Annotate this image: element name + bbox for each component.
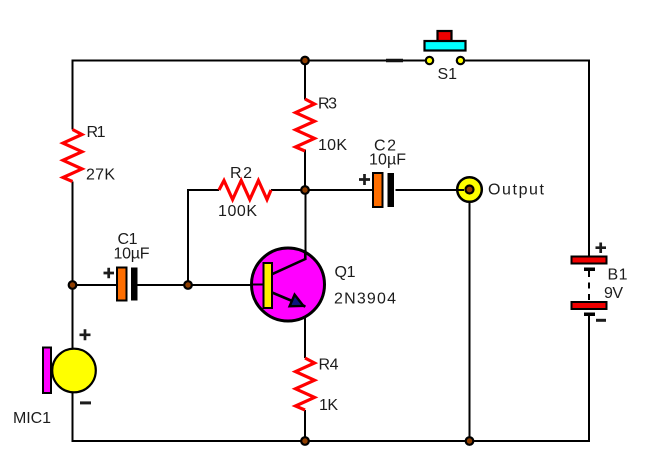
- wire left rail: [72, 60, 74, 443]
- microphone MIC1: [13, 329, 96, 427]
- junction R2/R3/collector: [301, 186, 309, 194]
- switch S1: [425, 31, 466, 83]
- wire overlap segment on top rail: [386, 59, 403, 62]
- wire top rail right of S1: [460, 60, 590, 62]
- wire top rail left of S1: [72, 60, 431, 62]
- svg-text:2N3904: 2N3904: [334, 291, 396, 308]
- svg-text:B1: B1: [608, 267, 628, 284]
- svg-text:R1: R1: [87, 124, 106, 141]
- wire R3 branch vertical: [304, 60, 306, 191]
- resistor R2: [219, 181, 271, 200]
- capacitor C2: [359, 138, 406, 208]
- wire vertical x188 R2-to-base: [187, 189, 189, 285]
- wire C2 to output: [396, 189, 458, 191]
- svg-text:10µF: 10µF: [369, 152, 406, 169]
- svg-text:R3: R3: [318, 96, 337, 113]
- junction top center: [301, 57, 309, 65]
- junction C1 / R2 / base: [184, 281, 192, 289]
- wire bottom rail: [72, 440, 591, 442]
- resistor R4: [296, 358, 315, 410]
- transistor Q1: [252, 248, 325, 321]
- svg-text:10K: 10K: [318, 137, 347, 154]
- junction bottom center: [301, 437, 309, 445]
- svg-text:Q1: Q1: [335, 264, 356, 281]
- svg-text:S1: S1: [438, 66, 458, 83]
- resistor R1: [63, 130, 82, 182]
- wire output vertical: [469, 200, 471, 441]
- junction bottom output: [466, 437, 474, 445]
- resistor R3: [296, 99, 315, 151]
- svg-text:Output: Output: [488, 182, 545, 199]
- wire R2 stubs: [188, 189, 305, 191]
- wire row y190 to C2: [305, 189, 373, 191]
- capacitor C1: [104, 231, 150, 301]
- wire right rail: [588, 60, 590, 443]
- junction left rail / C1: [69, 281, 77, 289]
- svg-text:27K: 27K: [86, 167, 115, 184]
- svg-text:100K: 100K: [218, 203, 257, 220]
- svg-text:9V: 9V: [604, 285, 623, 302]
- svg-text:1K: 1K: [319, 397, 338, 414]
- svg-text:R2: R2: [230, 165, 252, 182]
- wire collector vertical: [305, 190, 307, 256]
- connector Output: [455, 177, 545, 202]
- wire base row: [73, 284, 253, 286]
- battery B1: [572, 243, 628, 321]
- svg-text:MIC1: MIC1: [13, 410, 51, 427]
- svg-text:R4: R4: [319, 357, 339, 374]
- wire emitter vertical to R4: [304, 306, 306, 442]
- svg-text:10µF: 10µF: [114, 246, 150, 263]
